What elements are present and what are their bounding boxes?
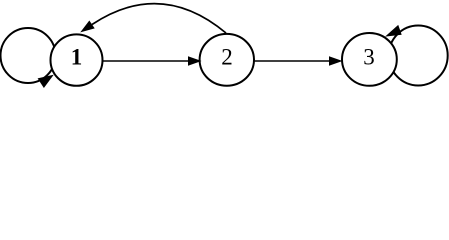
arrow from state 1 to state 2 (wire) bbox=[103, 60, 192, 62]
arrowhead of arrow 2 to 3 bbox=[330, 57, 342, 65]
state 3 circle bbox=[342, 33, 397, 86]
self-loop on state 1 bbox=[1, 28, 56, 83]
curved arrow from state 2 to state 1 bbox=[92, 4, 226, 33]
self-loop on state 3 bbox=[389, 26, 448, 86]
arrowhead of self-loop on state 1 bbox=[38, 76, 52, 88]
svg-text:2: 2 bbox=[221, 45, 233, 70]
arrowhead of arrow 1 to 2 bbox=[189, 57, 201, 65]
state 1 circle bbox=[51, 34, 103, 85]
svg-text:3: 3 bbox=[363, 45, 375, 70]
arrowhead of curved arrow at state 1 bbox=[82, 21, 94, 31]
arrowhead of self-loop on state 3 bbox=[387, 26, 402, 36]
arrow from state 2 to state 3 (wire) bbox=[254, 60, 332, 62]
svg-text:1: 1 bbox=[71, 45, 83, 70]
state 2 circle bbox=[200, 34, 254, 86]
